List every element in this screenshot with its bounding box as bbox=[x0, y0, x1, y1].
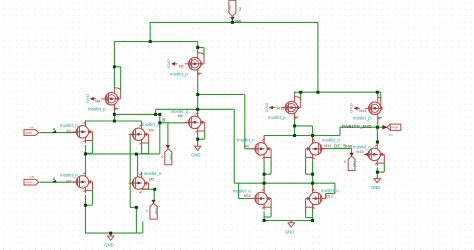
svg-text:mosfet_n: mosfet_n bbox=[237, 137, 255, 142]
svg-text:M4: M4 bbox=[149, 129, 154, 133]
svg-text:GND: GND bbox=[85, 94, 90, 104]
svg-text:inB: inB bbox=[30, 175, 34, 179]
svg-text:PARITY_DIG: PARITY_DIG bbox=[342, 124, 372, 129]
svg-text:PWR: PWR bbox=[169, 154, 173, 161]
svg-text:PWR: PWR bbox=[392, 126, 399, 130]
svg-text:M14: M14 bbox=[359, 109, 366, 113]
svg-text:mosfet_n: mosfet_n bbox=[60, 123, 78, 128]
svg-text:mosfet_n: mosfet_n bbox=[322, 138, 340, 143]
svg-text:Vb: Vb bbox=[160, 155, 164, 159]
svg-text:B: B bbox=[162, 117, 165, 122]
svg-text:out: out bbox=[389, 133, 393, 137]
svg-text:PWR: PWR bbox=[154, 208, 158, 215]
svg-text:inA: inA bbox=[30, 126, 34, 130]
svg-text:M2: M2 bbox=[179, 64, 184, 68]
svg-text:M8: M8 bbox=[95, 99, 100, 103]
svg-text:mosfet_p: mosfet_p bbox=[353, 116, 371, 121]
svg-text:M1: M1 bbox=[66, 129, 71, 133]
svg-text:GND: GND bbox=[191, 153, 200, 158]
svg-text:Vb: Vb bbox=[343, 160, 347, 164]
svg-text:M15: M15 bbox=[356, 150, 363, 154]
svg-text:Vo: Vo bbox=[144, 208, 148, 212]
svg-text:GND: GND bbox=[349, 103, 354, 113]
svg-text:M13: M13 bbox=[277, 106, 284, 110]
svg-text:mosfet_p: mosfet_p bbox=[88, 106, 106, 111]
svg-text:M9: M9 bbox=[244, 144, 249, 148]
svg-text:PWR: PWR bbox=[352, 161, 356, 168]
svg-text:mosfet_p: mosfet_p bbox=[170, 71, 188, 76]
svg-text:B: B bbox=[53, 177, 55, 181]
svg-text:mosfet_n: mosfet_n bbox=[60, 173, 78, 178]
svg-text:M6: M6 bbox=[178, 114, 183, 118]
svg-text:GND: GND bbox=[285, 230, 294, 235]
svg-text:mosfet_n: mosfet_n bbox=[142, 122, 160, 127]
svg-text:mosfet_n: mosfet_n bbox=[353, 144, 371, 149]
svg-text:M7: M7 bbox=[66, 180, 71, 184]
svg-text:M12: M12 bbox=[326, 194, 333, 198]
svg-text:mosfet_n: mosfet_n bbox=[233, 188, 251, 193]
svg-text:vdd: vdd bbox=[235, 19, 241, 23]
svg-text:mosfet_n: mosfet_n bbox=[144, 171, 162, 176]
svg-text:GND: GND bbox=[371, 185, 380, 190]
svg-text:M11: M11 bbox=[324, 144, 331, 148]
svg-text:M10: M10 bbox=[244, 194, 251, 198]
svg-text:GND: GND bbox=[104, 242, 113, 247]
svg-text:DC_Bias: DC_Bias bbox=[334, 143, 352, 148]
svg-text:GND: GND bbox=[264, 102, 269, 112]
svg-text:mosfet_n: mosfet_n bbox=[321, 188, 339, 193]
svg-text:GND: GND bbox=[166, 59, 171, 69]
svg-text:mosfet_p: mosfet_p bbox=[268, 115, 286, 120]
svg-text:M5: M5 bbox=[149, 177, 154, 181]
svg-text:PWR: PWR bbox=[25, 181, 32, 185]
svg-text:mosfet_n: mosfet_n bbox=[171, 109, 189, 114]
svg-text:PWR: PWR bbox=[228, 5, 232, 12]
svg-text:PWR: PWR bbox=[25, 131, 32, 135]
